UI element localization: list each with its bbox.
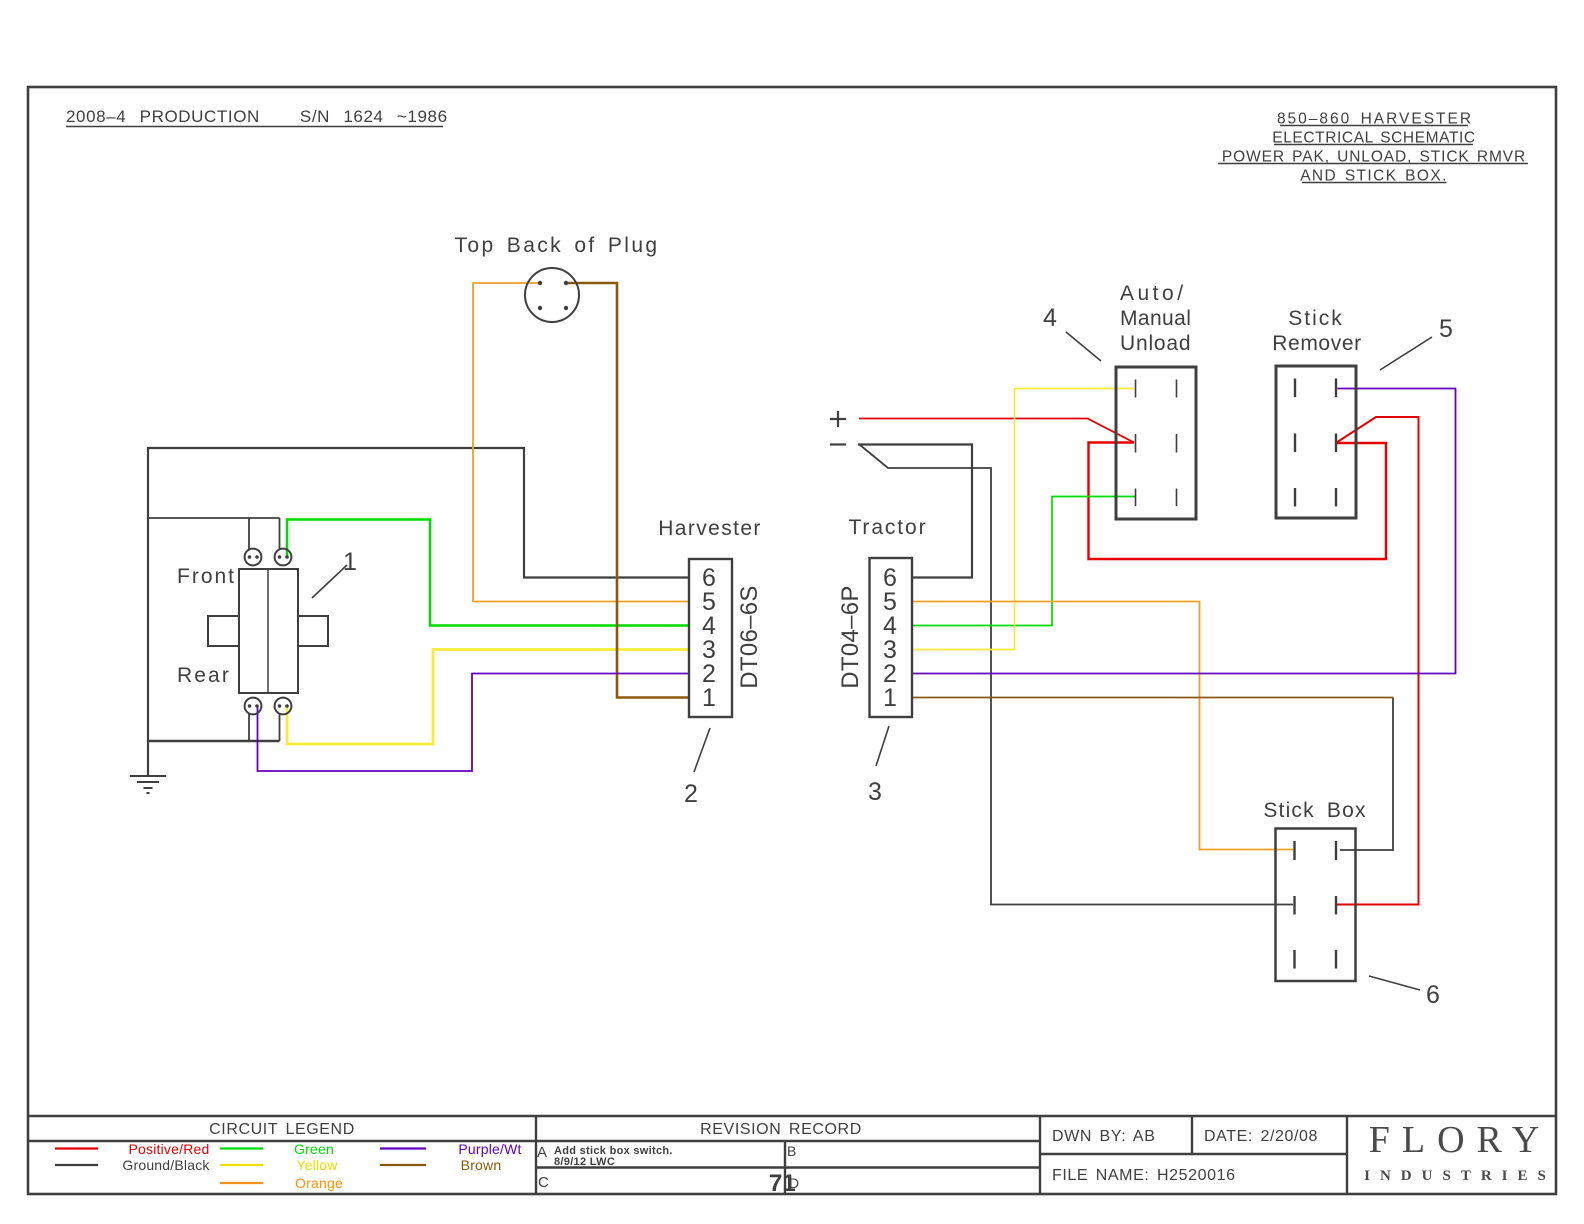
svg-text:Auto/: Auto/ <box>1120 282 1187 305</box>
svg-text:Remover: Remover <box>1272 332 1361 355</box>
svg-text:71: 71 <box>769 1170 796 1197</box>
svg-text:Manual: Manual <box>1120 307 1191 330</box>
svg-text:1: 1 <box>343 548 357 576</box>
svg-text:Front: Front <box>177 565 236 588</box>
svg-text:Stick: Stick <box>1288 307 1344 330</box>
svg-text:3: 3 <box>868 778 882 806</box>
svg-text:Orange: Orange <box>295 1175 343 1191</box>
svg-text:Positive/Red: Positive/Red <box>129 1141 210 1157</box>
svg-text:4: 4 <box>1043 304 1057 332</box>
svg-text:A: A <box>537 1144 547 1161</box>
svg-text:6: 6 <box>1426 981 1440 1009</box>
svg-text:Yellow: Yellow <box>296 1157 338 1173</box>
svg-text:C: C <box>538 1174 549 1191</box>
svg-text:Brown: Brown <box>461 1157 502 1173</box>
svg-text:CIRCUIT LEGEND: CIRCUIT LEGEND <box>209 1121 355 1138</box>
svg-text:B: B <box>787 1143 796 1159</box>
svg-text:Harvester: Harvester <box>658 517 762 540</box>
svg-text:1: 1 <box>883 684 897 712</box>
svg-text:1: 1 <box>702 684 716 712</box>
svg-text:5: 5 <box>1439 315 1453 343</box>
svg-text:DWN BY: AB: DWN BY: AB <box>1052 1128 1155 1145</box>
svg-text:Tractor: Tractor <box>848 516 927 539</box>
svg-text:DT04–6P: DT04–6P <box>837 585 864 689</box>
svg-text:Unload: Unload <box>1120 332 1191 355</box>
svg-text:DATE: 2/20/08: DATE: 2/20/08 <box>1204 1128 1318 1145</box>
svg-text:2008–4 PRODUCTION S/N 1624 ~: 2008–4 PRODUCTION S/N 1624 ~1986 <box>66 107 448 126</box>
svg-text:INDUSTRIES: INDUSTRIES <box>1364 1168 1556 1184</box>
svg-text:Rear: Rear <box>177 664 231 687</box>
svg-text:Stick Box: Stick Box <box>1263 799 1366 822</box>
svg-text:Ground/Black: Ground/Black <box>122 1157 210 1173</box>
svg-text:DT06–6S: DT06–6S <box>736 585 763 689</box>
svg-text:Top Back of Plug: Top Back of Plug <box>455 234 660 257</box>
svg-text:FLORY: FLORY <box>1369 1119 1551 1161</box>
svg-text:REVISION RECORD: REVISION RECORD <box>700 1121 862 1138</box>
svg-text:Green: Green <box>294 1141 334 1157</box>
svg-text:2: 2 <box>684 780 698 808</box>
svg-text:FILE NAME: H2520016: FILE NAME: H2520016 <box>1052 1167 1236 1184</box>
svg-text:Purple/Wt: Purple/Wt <box>458 1141 521 1157</box>
svg-text:8/9/12 LWC: 8/9/12 LWC <box>554 1156 615 1168</box>
